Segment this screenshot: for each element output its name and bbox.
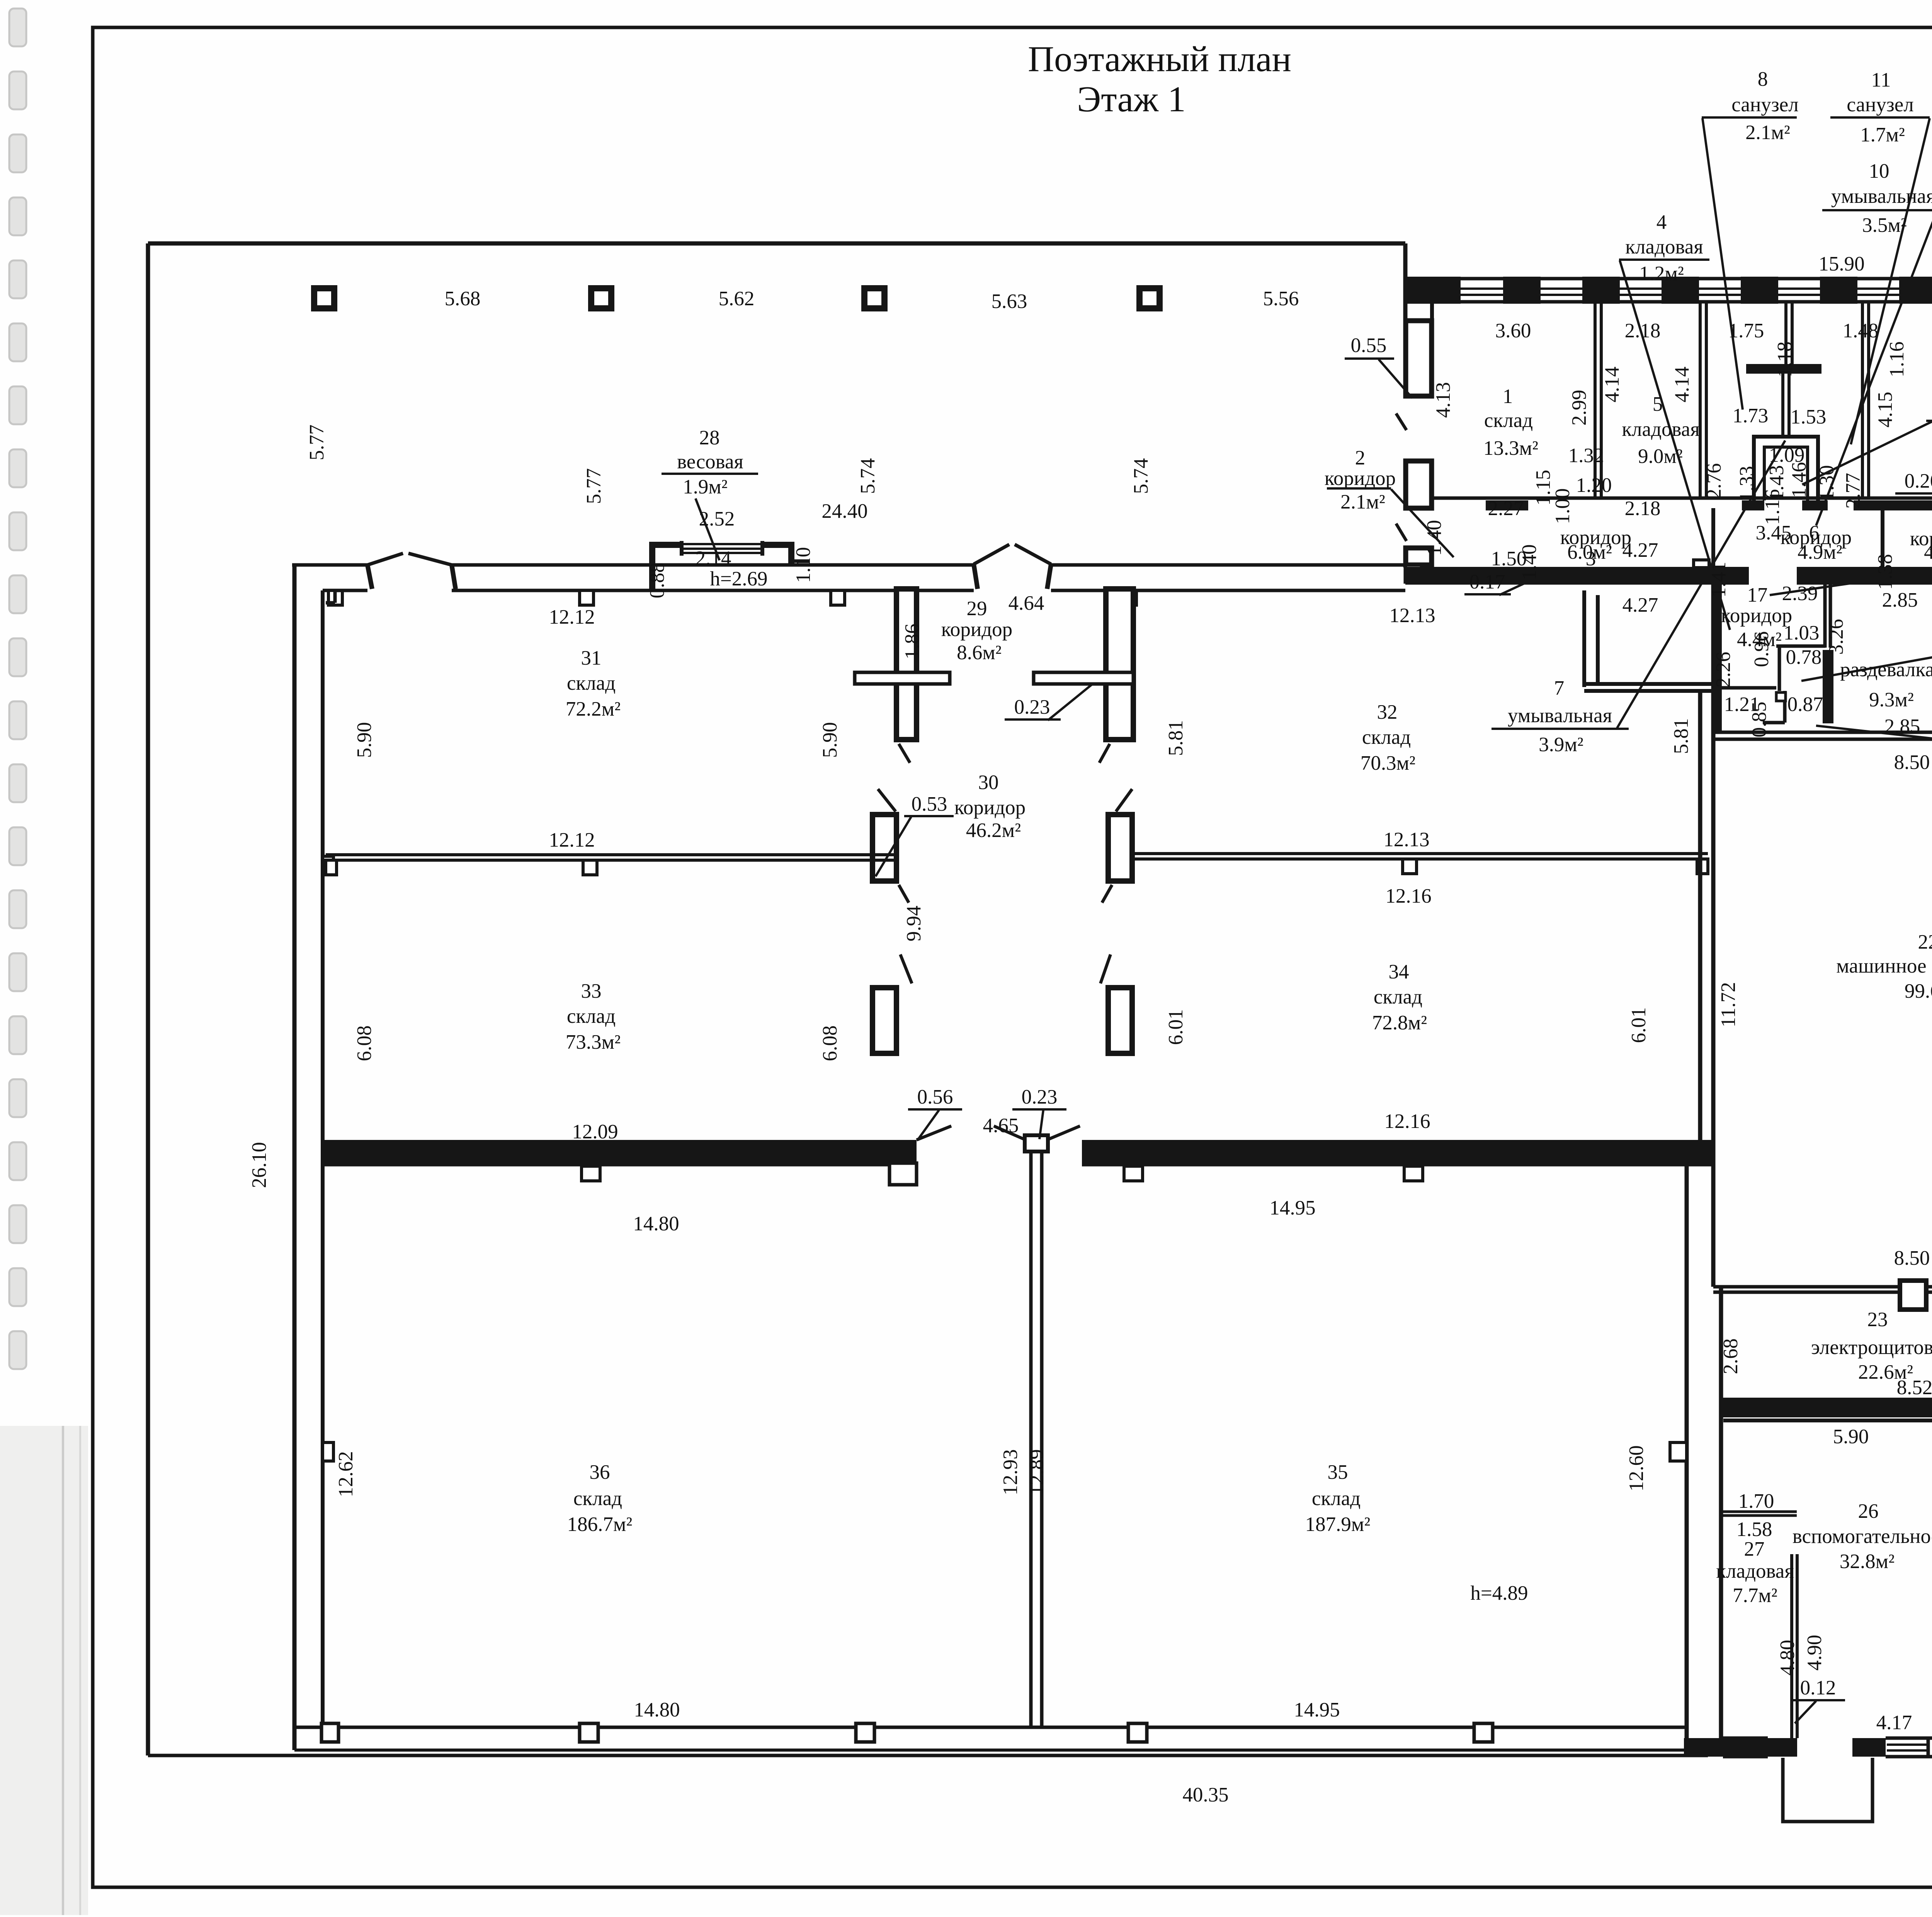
svg-text:0.88: 0.88 <box>646 563 668 599</box>
door slant <box>1102 885 1112 903</box>
svg-text:4.27: 4.27 <box>1622 594 1658 616</box>
svg-text:коридор: коридор <box>1325 467 1396 490</box>
svg-text:4: 4 <box>1656 211 1667 233</box>
svg-text:12.13: 12.13 <box>1389 604 1435 627</box>
svg-text:0.55: 0.55 <box>1351 334 1387 357</box>
svg-text:3.9м²: 3.9м² <box>1539 733 1583 756</box>
svg-text:1.38: 1.38 <box>1874 554 1896 590</box>
svg-text:1.40: 1.40 <box>1518 544 1541 580</box>
wall: room31 right / corr29 left <box>896 589 917 740</box>
binder holes <box>9 9 26 1369</box>
svg-text:70.3м²: 70.3м² <box>1361 752 1415 774</box>
svg-text:1.30: 1.30 <box>1816 465 1838 501</box>
door slant <box>878 789 896 811</box>
svg-text:4.14: 4.14 <box>1601 367 1623 403</box>
door slant <box>1116 789 1132 811</box>
svg-text:186.7м²: 186.7м² <box>567 1513 633 1536</box>
door opening 4.65 w/ threshold <box>1025 1135 1048 1152</box>
svg-text:2.52: 2.52 <box>699 508 735 530</box>
svg-text:весовая: весовая <box>677 451 743 473</box>
shelf line 1.70 <box>1719 1510 1797 1513</box>
svg-text:2.1м²: 2.1м² <box>1340 491 1385 513</box>
svg-text:раздевалка: раздевалка <box>1840 658 1932 681</box>
svg-text:склад: склад <box>1362 726 1411 748</box>
threshold <box>1854 500 1932 510</box>
wall: building south hollow <box>294 1726 1687 1729</box>
corr17 east wall <box>1823 584 1827 648</box>
svg-text:4.17: 4.17 <box>1876 1711 1912 1734</box>
svg-text:2.14: 2.14 <box>696 547 731 570</box>
svg-text:коридор: коридор <box>954 796 1026 819</box>
door slant c2b <box>1396 524 1406 541</box>
svg-text:12.09: 12.09 <box>572 1121 618 1143</box>
svg-text:5.90: 5.90 <box>819 722 841 758</box>
wall: west inner <box>321 590 325 1727</box>
closet 1.09x1.16 (room 9 kladovaya) <box>1754 437 1818 500</box>
svg-text:17: 17 <box>1747 584 1768 606</box>
svg-text:1.75: 1.75 <box>1728 320 1764 342</box>
notch 35 t1 <box>1404 1166 1423 1181</box>
wall: corr29 south (0.23) <box>855 672 950 684</box>
chamfer 31 b <box>333 590 337 603</box>
pilaster: corridor2 B <box>1406 461 1432 508</box>
leader 1.3 <box>1802 422 1932 485</box>
svg-text:кладовая: кладовая <box>1716 1560 1794 1582</box>
wall: south hollow right <box>1928 1738 1932 1757</box>
svg-text:кладовая: кладовая <box>1622 418 1699 441</box>
svg-text:коридор: коридор <box>1721 604 1792 627</box>
stub: corr30 left upper <box>872 815 896 881</box>
south wall notches <box>321 1723 338 1742</box>
svg-text:9.3м²: 9.3м² <box>1869 689 1914 711</box>
svg-text:1.03: 1.03 <box>1784 622 1820 644</box>
leader 17 <box>1770 583 1855 595</box>
divider rooms 31/33 <box>326 853 896 856</box>
svg-text:санузел: санузел <box>1847 94 1913 116</box>
leader 16 <box>1801 609 1932 681</box>
shower cells 16/19 <box>1776 645 1825 648</box>
svg-text:4.65: 4.65 <box>983 1114 1019 1137</box>
leader 28 <box>696 498 719 560</box>
svg-text:187.9м²: 187.9м² <box>1305 1513 1371 1536</box>
partition rooms 5/8 <box>1699 302 1702 498</box>
svg-text:32.8м²: 32.8м² <box>1840 1550 1895 1573</box>
pilaster: corridor2 A <box>1406 321 1432 396</box>
svg-text:29: 29 <box>967 597 987 620</box>
door slant c2a <box>1396 413 1406 430</box>
PLAN <box>148 243 1932 1822</box>
wall: room35 right / section left double <box>1685 1165 1689 1757</box>
column K1 <box>314 288 334 308</box>
svg-text:6.01: 6.01 <box>1628 1007 1650 1043</box>
svg-text:2.18: 2.18 <box>1625 320 1661 342</box>
svg-text:4.64: 4.64 <box>1009 592 1044 614</box>
svg-text:72.2м²: 72.2м² <box>566 698 621 720</box>
svg-text:4.15: 4.15 <box>1874 392 1896 428</box>
svg-text:санузел: санузел <box>1731 94 1798 116</box>
svg-text:12.93: 12.93 <box>999 1449 1022 1495</box>
svg-text:5.56: 5.56 <box>1263 287 1299 310</box>
wall: rooms35/36 divider <box>1029 1152 1033 1727</box>
leader 11 <box>1851 118 1930 444</box>
svg-text:машинное отделение: машинное отделение <box>1836 955 1932 977</box>
column K4 <box>1139 288 1160 308</box>
svg-text:34: 34 <box>1389 961 1409 983</box>
wall: hall top <box>148 242 1405 246</box>
svg-text:5.90: 5.90 <box>1833 1425 1869 1448</box>
wall: block west upper <box>1430 302 1434 396</box>
pier <box>1405 277 1461 304</box>
niche <box>328 590 342 605</box>
svg-text:8.50: 8.50 <box>1894 751 1930 774</box>
svg-text:99.6м²: 99.6м² <box>1905 980 1932 1002</box>
svg-text:12.12: 12.12 <box>549 606 595 628</box>
svg-text:2.68: 2.68 <box>1719 1339 1742 1374</box>
threshold <box>1742 500 1764 510</box>
svg-text:14.80: 14.80 <box>633 1213 679 1235</box>
partition rooms 8/10 lower <box>1781 374 1784 437</box>
column 22s <box>1900 1281 1926 1310</box>
svg-text:1.7м²: 1.7м² <box>1860 124 1905 146</box>
svg-text:6.01: 6.01 <box>1165 1009 1187 1045</box>
svg-text:32: 32 <box>1377 701 1398 723</box>
threshold <box>1802 500 1828 510</box>
svg-text:1.86: 1.86 <box>901 624 923 660</box>
svg-text:1.9м²: 1.9м² <box>683 476 728 498</box>
svg-text:4.90: 4.90 <box>1803 1635 1826 1671</box>
svg-text:12.16: 12.16 <box>1385 885 1431 907</box>
room22 north wall <box>1713 731 1932 734</box>
svg-text:14.80: 14.80 <box>634 1699 680 1721</box>
svg-text:вспомогательное: вспомогательное <box>1793 1525 1932 1548</box>
svg-text:склад: склад <box>1484 409 1533 432</box>
window s1 lines <box>1723 1737 1768 1740</box>
svg-text:9.94: 9.94 <box>903 906 925 942</box>
svg-text:5.77: 5.77 <box>583 468 605 504</box>
svg-text:5.81: 5.81 <box>1670 718 1692 754</box>
svg-text:электрощитовая: электрощитовая <box>1811 1336 1932 1359</box>
room26 north wall <box>1723 1419 1932 1422</box>
wall: middle band top line <box>323 589 367 592</box>
svg-text:2.1м²: 2.1м² <box>1745 121 1790 144</box>
notch 32/34 r <box>1697 859 1708 874</box>
svg-text:8: 8 <box>1758 68 1768 90</box>
svg-text:2.85: 2.85 <box>1884 715 1920 738</box>
svg-text:33: 33 <box>581 980 602 1002</box>
svg-text:6.0м²: 6.0м² <box>1567 541 1612 563</box>
svg-text:7.7м²: 7.7м² <box>1733 1584 1777 1607</box>
svg-text:2.77: 2.77 <box>1842 473 1864 509</box>
svg-text:2: 2 <box>1355 447 1366 469</box>
svg-text:0.23: 0.23 <box>1022 1086 1058 1108</box>
notch 35 r <box>1670 1442 1687 1461</box>
leader 0.55 <box>1379 359 1412 398</box>
leader 4 <box>1620 260 1730 630</box>
svg-text:5.63: 5.63 <box>992 290 1027 313</box>
south porch <box>1783 1758 1872 1822</box>
svg-text:12.13: 12.13 <box>1383 828 1429 851</box>
door slant <box>1100 954 1111 983</box>
svg-text:0.87: 0.87 <box>1787 693 1823 716</box>
svg-text:46.2м²: 46.2м² <box>966 819 1021 842</box>
svg-text:2.27: 2.27 <box>1488 497 1524 520</box>
pier <box>1741 277 1778 304</box>
partition 27 (0.12) <box>1790 1554 1793 1738</box>
room22 south wall <box>1713 1285 1900 1289</box>
stub: corr30 right lower <box>1108 988 1132 1053</box>
notch 32/34 c <box>1403 859 1417 874</box>
pilaster: corridor2 C <box>1406 548 1432 565</box>
svg-text:1.16: 1.16 <box>1761 489 1784 525</box>
svg-text:1.73: 1.73 <box>1733 405 1769 427</box>
svg-text:22: 22 <box>1918 931 1932 953</box>
svg-text:Поэтажный план: Поэтажный план <box>1028 39 1291 79</box>
svg-text:склад: склад <box>1374 986 1422 1008</box>
svg-text:коридор: коридор <box>941 618 1012 641</box>
svg-text:14.95: 14.95 <box>1269 1197 1315 1219</box>
window s2 lines <box>1886 1737 1928 1740</box>
notch 36 t1 <box>582 1166 600 1181</box>
svg-text:13.3м²: 13.3м² <box>1483 437 1538 459</box>
corridor partition 6/12 <box>1881 508 1884 567</box>
niche <box>831 590 845 605</box>
svg-text:1.2м²: 1.2м² <box>1639 262 1684 285</box>
svg-text:12.89: 12.89 <box>1026 1449 1048 1495</box>
svg-text:2.99: 2.99 <box>1568 390 1590 426</box>
pier s2 <box>1852 1738 1886 1757</box>
svg-text:8.52: 8.52 <box>1897 1376 1932 1399</box>
svg-text:31: 31 <box>581 647 602 669</box>
svg-text:11.72: 11.72 <box>1717 982 1740 1027</box>
svg-text:1.48: 1.48 <box>1843 320 1879 342</box>
stub: corr30 right upper <box>1108 815 1132 881</box>
partition rooms 1/5 <box>1594 302 1597 498</box>
svg-text:0.53: 0.53 <box>912 793 947 815</box>
svg-text:1.58: 1.58 <box>1736 1518 1772 1541</box>
pier <box>1503 277 1541 304</box>
svg-text:73.3м²: 73.3м² <box>566 1031 621 1053</box>
leader 8 <box>1702 118 1743 410</box>
stub: corr30 left lower <box>872 988 896 1053</box>
leader 19 <box>1816 726 1932 764</box>
svg-text:5.77: 5.77 <box>306 425 328 461</box>
partition rooms 10-11/13 <box>1861 302 1864 498</box>
svg-text:1: 1 <box>1503 385 1513 408</box>
svg-text:8.6м²: 8.6м² <box>957 641 1002 664</box>
facade wall with windows (north) <box>1403 243 1408 279</box>
pier s <box>1768 1738 1797 1757</box>
corridor partition 3/6 upper <box>1711 508 1715 567</box>
partition rooms 8/10 upper <box>1784 302 1787 364</box>
sill 1.10 <box>793 560 810 563</box>
svg-text:4.7м²: 4.7м² <box>1924 541 1932 563</box>
door slant <box>899 885 909 903</box>
wall: middle band south <box>323 1140 917 1163</box>
svg-text:0.78: 0.78 <box>1786 646 1822 668</box>
svg-text:склад: склад <box>567 672 616 694</box>
notch 35 t0 <box>1124 1166 1143 1181</box>
svg-text:1.16: 1.16 <box>1886 342 1908 378</box>
svg-text:1.32: 1.32 <box>1568 444 1604 467</box>
pier <box>1662 277 1699 304</box>
svg-text:26: 26 <box>1858 1500 1879 1522</box>
svg-text:5.68: 5.68 <box>445 287 481 310</box>
svg-text:0.12: 0.12 <box>1800 1677 1836 1699</box>
wall: west outer <box>293 565 297 1750</box>
svg-text:36: 36 <box>590 1461 610 1483</box>
svg-text:0.17: 0.17 <box>1469 571 1505 593</box>
niche a <box>1694 560 1709 568</box>
wall: hall/annex left outer <box>146 243 150 1755</box>
svg-text:3.26: 3.26 <box>1825 619 1847 655</box>
svg-text:5.62: 5.62 <box>719 287 755 310</box>
svg-text:26.10: 26.10 <box>248 1142 270 1188</box>
svg-text:24.40: 24.40 <box>821 500 867 522</box>
chamfer 31 c <box>326 601 335 605</box>
wall: rooms32/34 right <box>1698 691 1702 1163</box>
svg-text:2.85: 2.85 <box>1882 589 1918 611</box>
svg-text:склад: склад <box>1312 1487 1361 1510</box>
leader 10 <box>1816 211 1932 526</box>
pier <box>1820 277 1857 304</box>
bar room8/10 (1.53) <box>1746 364 1821 374</box>
svg-text:h=4.89: h=4.89 <box>1470 1582 1528 1604</box>
wall: room32 right <box>1582 590 1586 687</box>
notch w2 <box>323 1442 333 1461</box>
door slant <box>1099 744 1110 763</box>
corr17 south wall <box>1718 686 1776 690</box>
svg-text:5.90: 5.90 <box>353 722 376 758</box>
svg-text:72.8м²: 72.8м² <box>1372 1012 1427 1034</box>
svg-text:1.46: 1.46 <box>1788 462 1810 498</box>
svg-text:1.53: 1.53 <box>1791 406 1827 428</box>
room23 south thick wall <box>1721 1398 1932 1417</box>
svg-text:0.20: 0.20 <box>1905 470 1932 492</box>
svg-text:4.9м²: 4.9м² <box>1798 541 1842 563</box>
svg-text:10: 10 <box>1869 160 1889 182</box>
wall: block south thick <box>1405 567 1749 585</box>
svg-text:умывальная: умывальная <box>1508 704 1612 727</box>
wall: corr17 left <box>1713 585 1722 732</box>
svg-text:0.96: 0.96 <box>1750 631 1773 667</box>
wall: south right section a <box>1684 1738 1797 1757</box>
rooms row south thin wall <box>1432 497 1932 500</box>
wall: hall bottom line <box>292 563 367 567</box>
notch w1 <box>323 856 333 875</box>
window: vesovaya <box>682 543 762 545</box>
column K2 <box>591 288 611 308</box>
svg-text:27: 27 <box>1744 1538 1765 1560</box>
divider rooms 32/34 <box>1133 852 1708 855</box>
room 28 vesovaya walls <box>649 542 682 548</box>
svg-text:7: 7 <box>1554 677 1565 699</box>
svg-text:4.14: 4.14 <box>1671 367 1693 403</box>
chamfer 31 a <box>335 589 365 592</box>
svg-text:умывальная: умывальная <box>1831 185 1932 208</box>
svg-text:30: 30 <box>978 771 999 794</box>
svg-text:склад: склад <box>573 1487 622 1510</box>
svg-text:35: 35 <box>1328 1461 1348 1483</box>
svg-text:1.10: 1.10 <box>792 547 815 583</box>
wall: bottom band top line L <box>323 1163 917 1167</box>
door symbol D2 (hall-corr29) <box>974 544 1009 564</box>
svg-text:склад: склад <box>567 1005 616 1027</box>
wall: bottom band top line R <box>1082 1163 1713 1167</box>
wall: room32 left / corr29 right <box>1106 589 1133 740</box>
svg-text:23: 23 <box>1867 1308 1888 1331</box>
svg-text:40.35: 40.35 <box>1182 1784 1228 1806</box>
svg-text:8.50: 8.50 <box>1894 1247 1930 1269</box>
door slant <box>900 954 912 983</box>
svg-text:9.0м²: 9.0м² <box>1638 445 1683 468</box>
svg-text:3.5м²: 3.5м² <box>1862 214 1907 236</box>
svg-text:11: 11 <box>1871 69 1891 91</box>
svg-text:0.85: 0.85 <box>1748 702 1770 738</box>
niche <box>580 590 594 605</box>
svg-text:h=2.69: h=2.69 <box>710 568 767 590</box>
svg-text:1.09: 1.09 <box>1769 444 1805 466</box>
svg-text:1.33: 1.33 <box>1736 466 1758 502</box>
svg-text:2.26: 2.26 <box>1712 652 1735 688</box>
svg-text:28: 28 <box>699 427 720 449</box>
svg-text:12.62: 12.62 <box>335 1451 357 1497</box>
window corr2 <box>1405 565 1422 582</box>
svg-text:1.18: 1.18 <box>1774 342 1796 378</box>
svg-text:14.95: 14.95 <box>1294 1699 1340 1721</box>
svg-text:1.70: 1.70 <box>1738 1490 1774 1512</box>
notch 31/33 l <box>326 860 337 875</box>
door slant <box>899 744 910 763</box>
svg-text:6.08: 6.08 <box>353 1026 376 1061</box>
svg-text:4.80: 4.80 <box>1776 1640 1799 1676</box>
svg-text:кладовая: кладовая <box>1625 236 1703 258</box>
pier <box>1582 277 1620 304</box>
svg-text:15.90: 15.90 <box>1818 253 1864 275</box>
pier <box>1899 277 1932 304</box>
svg-text:3.60: 3.60 <box>1495 320 1531 342</box>
svg-text:0.56: 0.56 <box>917 1086 953 1108</box>
door symbol D1 (hall-corr30) <box>367 553 403 565</box>
svg-text:2.18: 2.18 <box>1625 497 1661 520</box>
leader 7 <box>1617 441 1785 728</box>
notch 31/33 c <box>583 860 597 875</box>
svg-text:12.12: 12.12 <box>549 829 595 851</box>
svg-text:1.00: 1.00 <box>1551 488 1574 524</box>
column K3 <box>864 288 884 308</box>
svg-text:0.23: 0.23 <box>1014 696 1050 718</box>
svg-text:5.74: 5.74 <box>1130 458 1152 494</box>
svg-text:12.16: 12.16 <box>1384 1110 1430 1133</box>
svg-text:Этаж 1: Этаж 1 <box>1077 79 1185 119</box>
svg-text:5.81: 5.81 <box>1165 720 1187 756</box>
svg-text:4.13: 4.13 <box>1432 382 1454 418</box>
svg-text:1.20: 1.20 <box>1576 474 1612 497</box>
svg-text:2.76: 2.76 <box>1703 463 1725 499</box>
niche <box>1122 590 1136 605</box>
svg-text:5: 5 <box>1653 393 1663 415</box>
svg-text:12.60: 12.60 <box>1625 1445 1648 1491</box>
svg-text:5.74: 5.74 <box>857 458 879 494</box>
leader corr2 <box>1391 489 1454 557</box>
wall end step 33 <box>889 1163 917 1185</box>
underline corr2 <box>1327 487 1391 490</box>
threshold <box>1486 500 1528 510</box>
wall: hall right upper <box>1403 243 1408 396</box>
svg-text:6.08: 6.08 <box>819 1026 841 1061</box>
